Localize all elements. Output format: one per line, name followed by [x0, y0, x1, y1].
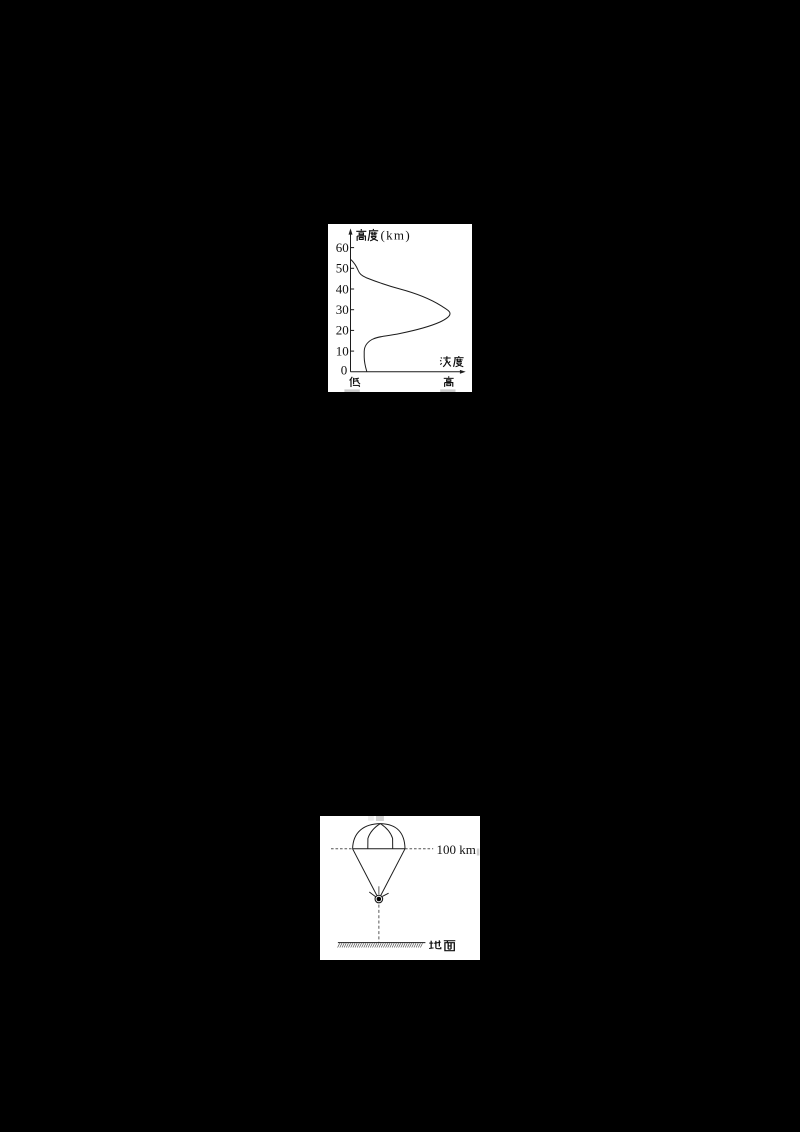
svg-text:30: 30 [336, 302, 349, 317]
canopy inner gore left [368, 824, 381, 849]
svg-text:(km): (km) [381, 227, 411, 242]
ozone concentration curve [351, 260, 450, 372]
dashed altitude line left [331, 848, 353, 850]
ground hatching [338, 943, 423, 947]
payload outer circle [375, 895, 383, 903]
gray smudge left-bottom [344, 389, 359, 392]
canopy outer right arc [380, 824, 405, 849]
gray smudge right-bottom [440, 389, 455, 392]
dashed altitude line right [405, 848, 433, 850]
tick 40 [351, 288, 355, 290]
x-axis arrowhead [460, 370, 466, 374]
gray line above payload [378, 886, 380, 894]
figure 2: parachute descending to ground [320, 816, 480, 960]
canopy base line [353, 848, 405, 850]
svg-text:20: 20 [336, 323, 349, 338]
tick 10 [351, 350, 355, 352]
x label 高 [444, 376, 454, 387]
y-axis [350, 233, 352, 372]
tick 60 [351, 247, 355, 249]
whisker left [369, 892, 375, 897]
canopy inner gore right [380, 824, 392, 849]
x label 浓 [440, 356, 451, 367]
payload inner dot [377, 897, 382, 902]
label 地 [429, 940, 441, 948]
whisker right [382, 893, 388, 896]
tick 30 [351, 309, 355, 311]
svg-text:0: 0 [341, 362, 348, 377]
svg-text:100 km: 100 km [437, 842, 476, 857]
y-axis arrowhead [349, 228, 353, 234]
svg-text:10: 10 [336, 343, 349, 358]
gray smudge right edge [477, 849, 480, 856]
tick 50 [351, 267, 355, 269]
ground line [338, 942, 426, 944]
axis title 度 [368, 229, 378, 241]
shroud line left [353, 849, 377, 895]
svg-text:60: 60 [336, 240, 349, 255]
axis title 高 [356, 229, 366, 241]
svg-text:40: 40 [336, 281, 349, 296]
dashed drop line [378, 905, 380, 943]
x label 低 [350, 377, 361, 387]
label 面 [444, 941, 456, 951]
tick 20 [351, 329, 355, 331]
gray smudge top B [376, 816, 384, 821]
x label 度 [454, 356, 464, 367]
x-axis [351, 371, 462, 373]
shroud line right [381, 849, 405, 895]
svg-text:50: 50 [336, 261, 349, 276]
figure 1: ozone concentration vs altitude chart [328, 224, 472, 392]
gray smudge top A [368, 816, 374, 821]
canopy outer left arc [353, 824, 381, 849]
